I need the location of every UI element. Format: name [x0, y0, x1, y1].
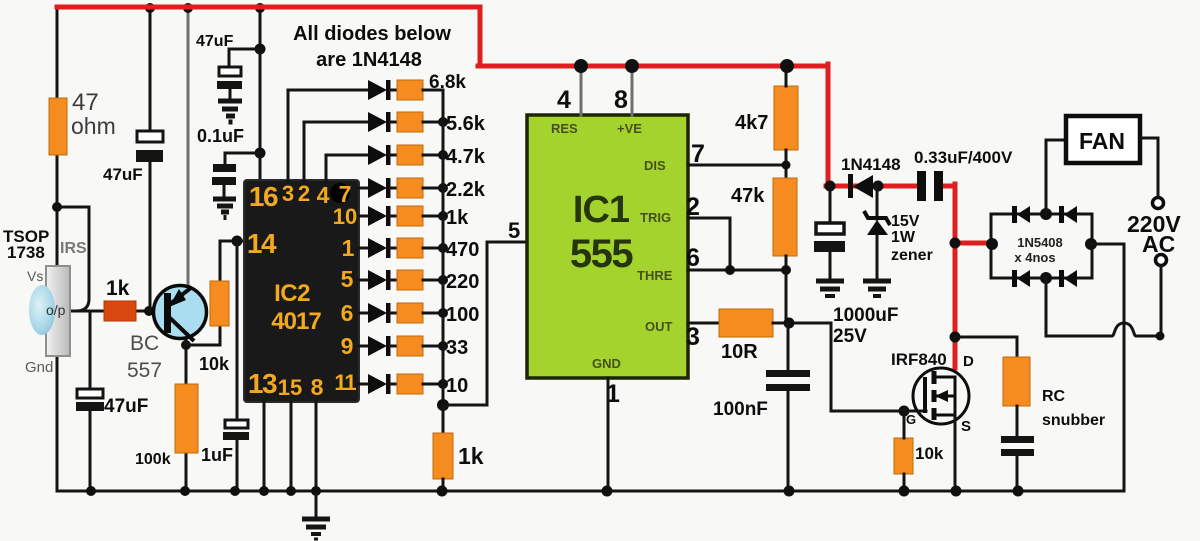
wire: red drop to supply row: [826, 64, 831, 186]
wire: resistor 10 to bus: [423, 383, 443, 386]
node: bus junction row 5.6k: [438, 117, 448, 127]
svg-text:555: 555: [570, 232, 633, 276]
diode D4 1N4148: [368, 178, 391, 198]
node: bus junction row 10: [438, 379, 448, 389]
resistor 100: [397, 303, 423, 323]
diode D6 1N4148: [368, 238, 391, 258]
wire: 4k7 bottom to 47k top: [785, 150, 788, 178]
svg-text:1N4148: 1N4148: [841, 155, 901, 174]
wire: red drop to MOSFET drain: [953, 184, 958, 368]
wire: red bus drop: [478, 7, 483, 66]
wire: diode to resistor row 220: [390, 279, 397, 282]
svg-text:4: 4: [317, 182, 330, 208]
wire: diode to resistor row 33: [390, 345, 397, 348]
wire: bridge top to FAN: [1046, 140, 1066, 214]
node: red bus junction at x188: [183, 3, 193, 13]
wire: +V red bus top: [57, 5, 480, 10]
node: 47uF cap ground junction: [86, 486, 96, 496]
wire: 47k bottom to THRE node and 100nF: [785, 256, 788, 324]
diode D1 1N4148: [368, 80, 391, 100]
diode D7 1N4148: [368, 270, 391, 290]
wire: bus node to 555 pin 5: [443, 242, 528, 405]
svg-text:RES: RES: [551, 121, 578, 136]
transistor Q1 BC557: [154, 286, 207, 342]
svg-text:snubber: snubber: [1042, 412, 1105, 429]
node: hop wire end: [1156, 332, 1165, 341]
resistor RC snubber R: [1003, 357, 1030, 406]
node: 100nF ground junction: [784, 486, 795, 497]
node: bus junction row 470: [438, 243, 448, 253]
wire: IC2 pin5 stub to row 220: [359, 279, 368, 282]
resistor 1k (integrator): [433, 433, 453, 479]
wire: IC2 pin7 stub to row 2.2k: [359, 187, 368, 190]
svg-text:100: 100: [446, 304, 479, 326]
resistor 220: [397, 270, 423, 290]
node: junction of IRS loop on left vertical: [52, 202, 62, 212]
wire: branch to 0.1uF cap: [225, 153, 260, 164]
svg-text:47uF: 47uF: [196, 33, 234, 50]
wire: FAN to mains upper terminal: [1140, 138, 1158, 197]
wire: branch to 47uF decoupling cap: [229, 49, 260, 67]
wire: left supply vertical (top of 47 ohm): [56, 7, 59, 98]
wire: red supply row to 1N4148: [826, 184, 918, 189]
wire: gate 10k leads: [903, 411, 906, 491]
svg-text:IC1: IC1: [573, 189, 630, 231]
svg-text:10R: 10R: [721, 341, 758, 363]
node: bridge right: [1085, 238, 1097, 250]
svg-text:15: 15: [278, 375, 302, 400]
node: pin1 ground junction: [602, 486, 613, 497]
node: gate/10k junction: [899, 406, 910, 417]
bridge diode top-left 1N5408: [1012, 206, 1030, 223]
node: BC557 base junction: [144, 306, 154, 316]
wire: THRE pin 6 to 47k bottom: [688, 269, 786, 272]
bridge rectifier outline: [991, 214, 1092, 278]
resistor 100k: [175, 384, 198, 453]
wire: resistor 470 to bus: [423, 247, 443, 250]
wire: 1k resistor to BC557 base: [136, 310, 158, 313]
svg-text:5.6k: 5.6k: [446, 113, 486, 135]
svg-text:25V: 25V: [833, 326, 867, 347]
wire: resistor 1k to bus: [423, 215, 443, 218]
wire: OUT pin 3 to 10R: [688, 322, 719, 325]
node: pin15 ground junction: [286, 486, 296, 496]
node: collector junction: [181, 340, 191, 350]
bridge diode bottom-right 1N5408: [1059, 270, 1077, 287]
wire: IC2 pin 13 to ground bus: [263, 402, 266, 491]
ground symbol below bus at pin 8: [302, 491, 330, 539]
node: bus junction row 33: [438, 341, 448, 351]
svg-text:AC: AC: [1142, 231, 1175, 257]
wire: 4k7 top to red bus: [785, 66, 788, 86]
wire: diode to resistor row 5.6k: [390, 121, 397, 124]
wire: diode to resistor row 2.2k: [390, 187, 397, 190]
node: pin13 ground junction: [259, 486, 269, 496]
ground symbol under 1000uF: [816, 281, 844, 296]
wire: IC2 pin11 stub to row 10: [359, 383, 368, 386]
wire: IC2 pin 3 to 6.8k row: [288, 90, 368, 182]
wire: zener lead: [876, 186, 879, 219]
wire: red supply row cap to corner: [943, 184, 955, 189]
resistor 470: [397, 238, 423, 258]
wire: 100nF lead: [787, 324, 790, 370]
svg-text:S: S: [961, 418, 971, 435]
node: red bus junction at x260: [255, 3, 265, 13]
svg-text:6: 6: [686, 244, 700, 272]
wire: drain to RC snubber: [955, 337, 1017, 357]
wire: bridge right node to ground bus (crosses under hop): [1091, 244, 1124, 491]
wire: 555 pin 8 to red bus: [631, 66, 634, 115]
capacitor 100nF: [766, 370, 810, 391]
node: pin8 red bus junction: [625, 59, 639, 73]
svg-text:1k: 1k: [446, 207, 469, 229]
svg-text:GND: GND: [592, 356, 621, 371]
svg-text:33: 33: [446, 337, 468, 359]
svg-text:8: 8: [614, 86, 628, 114]
capacitor 1uF: [223, 420, 249, 440]
wire: TRIG pin 2 jog down: [688, 218, 730, 270]
wire: IRS loop from supply node to TSOP output: [57, 207, 89, 311]
svg-text:TRIG: TRIG: [640, 210, 671, 225]
svg-text:Vs: Vs: [27, 268, 43, 284]
node: bus junction row 4.7k: [438, 150, 448, 160]
svg-text:4: 4: [557, 86, 571, 114]
wire: 1000uF lead from red row: [829, 186, 832, 223]
resistor 47k: [773, 178, 797, 256]
svg-text:ohm: ohm: [71, 113, 116, 139]
svg-text:100k: 100k: [135, 451, 171, 468]
svg-text:470: 470: [446, 239, 479, 261]
node: 10R/100nF junction: [784, 318, 795, 329]
node: pin4 red bus junction: [574, 59, 588, 73]
wire: 1uF to ground bus: [236, 439, 239, 491]
wire: summing bus vertical: [442, 90, 445, 405]
resistor 1k (base): [104, 301, 136, 321]
node: bridge top: [1040, 208, 1052, 220]
node: bus junction row 2.2k: [438, 183, 448, 193]
diode D10 1N4148: [368, 374, 391, 394]
wire: collector to 10k bottom jog: [186, 326, 220, 345]
node: MOSFET drain junction: [950, 332, 961, 343]
svg-text:47uF: 47uF: [104, 396, 148, 417]
node: 1uF ground junction: [230, 486, 240, 496]
resistor 10: [397, 374, 423, 394]
bridge diode bottom-left 1N5408: [1012, 270, 1030, 287]
wire: MOSFET source to ground bus: [954, 415, 957, 491]
svg-text:1W: 1W: [891, 229, 916, 246]
svg-text:47k: 47k: [731, 185, 765, 207]
svg-text:47: 47: [72, 89, 99, 116]
svg-text:220: 220: [446, 271, 479, 293]
wire: IC2 pin6 stub to row 100: [359, 312, 368, 315]
resistor 6.8k: [397, 80, 423, 100]
svg-text:IC2: IC2: [274, 280, 310, 307]
wire: IC2 pin9 stub to row 33: [359, 345, 368, 348]
svg-text:1738: 1738: [7, 243, 45, 262]
wire: red stub to bridge left node: [955, 241, 990, 246]
wire: red mid bus: [478, 64, 828, 69]
resistor 4.7k: [397, 145, 423, 165]
IC U2: CD4017 body: [244, 180, 359, 402]
wire: 47uF base capacitor down to base node: [149, 161, 152, 311]
svg-text:RC: RC: [1042, 388, 1066, 405]
wire: IC2 pin 4 to 4.7k row: [326, 155, 368, 182]
node: pin 14 junction: [232, 236, 243, 247]
svg-text:4017: 4017: [271, 308, 321, 335]
svg-text:5: 5: [508, 218, 520, 243]
terminal: mains lower: [1156, 255, 1167, 266]
capacitor 47uF (TSOP filter, polarized): [76, 389, 104, 411]
node: red bus junction at x150: [145, 3, 155, 13]
node: bus bottom junction: [437, 399, 449, 411]
svg-text:1000uF: 1000uF: [833, 305, 898, 326]
wire: 47uF cap to ground bus: [89, 410, 92, 491]
wire: 100nF to ground bus: [787, 391, 790, 491]
svg-text:10k: 10k: [199, 354, 230, 374]
wire: DIS pin 7 to 4k7/47k junction: [688, 164, 786, 167]
svg-text:5: 5: [341, 266, 354, 292]
wire: mains lower terminal down: [1160, 266, 1163, 336]
wire: red bus to 47uF base capacitor: [149, 7, 152, 131]
resistor 10k (gate): [894, 438, 913, 474]
svg-text:IRS: IRS: [60, 240, 87, 257]
wire: IC2 pin 15 to ground bus: [290, 402, 293, 491]
node: gate 10k ground junction: [899, 486, 910, 497]
svg-text:15V: 15V: [891, 213, 920, 230]
wire: diode to resistor row 6.8k: [390, 89, 397, 92]
wire: IC2 pin16 vertical to red bus: [259, 7, 262, 182]
node: red row left junction: [825, 181, 836, 192]
node: 100k ground junction: [180, 486, 190, 496]
diode D8 1N4148: [368, 303, 391, 323]
svg-text:1N5408: 1N5408: [1017, 235, 1063, 250]
svg-text:2: 2: [298, 181, 310, 206]
wire: 10k top to IC2 pin 14: [220, 241, 247, 281]
ground symbol under 47uF decoupling cap: [218, 101, 242, 122]
svg-text:1k: 1k: [106, 277, 130, 300]
zener diode 15V 1W: [864, 211, 890, 281]
svg-text:10: 10: [446, 375, 468, 397]
IC U1: 555 timer body: [527, 115, 688, 378]
svg-text:0.33uF/400V: 0.33uF/400V: [914, 148, 1013, 167]
svg-text:FAN: FAN: [1079, 128, 1125, 154]
svg-text:1k: 1k: [458, 443, 484, 469]
svg-text:DIS: DIS: [644, 158, 666, 173]
wire: bridge bottom to mains with crossover hop: [1046, 278, 1161, 336]
svg-text:3: 3: [282, 181, 294, 206]
ground symbol under zener: [863, 281, 891, 296]
wire: IC2 pin10 stub to row 1k: [359, 215, 368, 218]
wire: bus bottom to 1k: [442, 405, 445, 433]
wire: IC2 pin 2 to 5.6k row: [304, 122, 368, 182]
wire: 555 pin 4 to red bus: [580, 66, 583, 115]
wire: left vertical below 47 ohm down to ground bus: [56, 153, 59, 491]
node: bridge branch junction on red drop: [950, 238, 961, 249]
node: bus junction row 1k: [438, 211, 448, 221]
svg-text:are 1N4148: are 1N4148: [316, 49, 422, 71]
resistor 33: [397, 336, 423, 356]
node: 47uF branch junction on pin16 wire: [255, 44, 266, 55]
wire: resistor 5.6k to bus: [423, 121, 443, 124]
load: FAN box: [1066, 116, 1140, 163]
wire: bottom ground bus: [57, 490, 1124, 493]
node: bridge bottom: [1040, 272, 1052, 284]
TSOP1738 lens: [29, 285, 55, 335]
svg-text:6.8k: 6.8k: [429, 72, 466, 93]
wire: BC557 collector down to 100k: [185, 337, 188, 384]
capacitor 47uF (supply decoupling, polarized): [217, 67, 242, 99]
node: 1k ground junction: [437, 486, 448, 497]
resistor 4k7: [774, 86, 798, 150]
wire: BC557 emitter to red bus: [187, 7, 190, 287]
wire: TSOP o/p to 1k resistor: [70, 310, 104, 313]
wire: 555 pin 1 GND to ground bus: [607, 378, 610, 491]
wire: diode to resistor row 4.7k: [390, 154, 397, 157]
node: snubber ground junction: [1013, 486, 1024, 497]
wire: snubber R to C: [1016, 406, 1019, 436]
svg-text:1: 1: [342, 235, 355, 261]
capacitor 47uF (base coupling, polarized): [136, 131, 163, 162]
diode D2 1N4148: [368, 112, 391, 132]
node: 4k7 red bus junction: [780, 59, 794, 73]
capacitor 0.1uF: [212, 164, 236, 197]
svg-text:G: G: [906, 412, 916, 427]
svg-text:o/p: o/p: [46, 302, 66, 318]
resistor 1k: [397, 206, 423, 226]
wire: resistor 33 to bus: [423, 345, 443, 348]
svg-text:8: 8: [311, 374, 324, 400]
wire: 1k to ground bus: [442, 479, 445, 491]
node: 0.1uF branch junction on pin16 wire: [255, 148, 266, 159]
wire: resistor 2.2k to bus: [423, 187, 443, 190]
svg-text:+VE: +VE: [617, 121, 642, 136]
wire: resistor 6.8k to bus: [423, 89, 443, 92]
wire: gate route down and right to MOSFET gate: [831, 323, 926, 411]
svg-text:THRE: THRE: [637, 268, 673, 283]
svg-text:10: 10: [333, 204, 357, 229]
svg-text:10k: 10k: [915, 444, 944, 463]
wire: resistor 100 to bus: [423, 312, 443, 315]
wire: IC2 pin 8 to ground bus: [315, 402, 318, 491]
svg-text:47uF: 47uF: [103, 165, 143, 184]
node: 4k7/47k junction: [782, 161, 791, 170]
svg-text:1uF: 1uF: [201, 445, 233, 465]
wire: diode to resistor row 1k: [390, 215, 397, 218]
diode 1N4148 (supply): [848, 174, 873, 198]
resistor 2.2k: [397, 178, 423, 198]
wire: diode to resistor row 470: [390, 247, 397, 250]
capacitor 0.33uF/400V: [917, 171, 943, 201]
wire: snubber C to ground bus: [1016, 456, 1019, 491]
wire: pin14 node down to 1uF: [236, 241, 239, 420]
wire: branch from o/p line down to 47uF coupling cap: [89, 311, 92, 389]
svg-text:x 4nos: x 4nos: [1014, 250, 1055, 265]
node: source ground junction: [951, 486, 962, 497]
svg-text:9: 9: [341, 333, 354, 359]
resistor 47 ohm: [49, 98, 67, 155]
svg-text:4.7k: 4.7k: [446, 146, 486, 168]
resistor 10k (emitter-base): [210, 281, 229, 326]
wire: diode to resistor row 100: [390, 312, 397, 315]
node: TRIG/THRE junction: [725, 265, 735, 275]
svg-text:13: 13: [248, 368, 277, 399]
svg-text:557: 557: [127, 359, 162, 382]
terminal: mains upper: [1153, 198, 1164, 209]
svg-text:2.2k: 2.2k: [446, 179, 486, 201]
ground symbol under 0.1uF: [213, 199, 236, 218]
svg-text:100nF: 100nF: [713, 399, 768, 420]
transistor Q2 IRF840 MOSFET: [913, 368, 969, 424]
capacitor RC snubber C: [1001, 436, 1034, 456]
node: bus junction row 220: [438, 275, 448, 285]
wire: 100k to ground bus: [185, 453, 188, 491]
bridge diode top-right 1N5408: [1059, 206, 1077, 223]
svg-text:16: 16: [249, 181, 278, 212]
diode D9 1N4148: [368, 336, 391, 356]
svg-text:11: 11: [334, 370, 356, 395]
resistor 5.6k: [397, 112, 423, 132]
svg-text:OUT: OUT: [645, 319, 673, 334]
svg-text:D: D: [963, 353, 974, 370]
wire: diode to resistor row 10: [390, 383, 397, 386]
resistor 10R: [719, 309, 773, 337]
wire: resistor 220 to bus: [423, 279, 443, 282]
node: pin8 ground junction: [311, 486, 321, 496]
svg-text:All diodes below: All diodes below: [293, 23, 451, 45]
svg-text:0.1uF: 0.1uF: [197, 126, 244, 146]
capacitor 1000uF 25V (polarized): [814, 223, 845, 280]
wire: IC2 pin1 stub to row 470: [359, 247, 368, 250]
svg-text:4k7: 4k7: [735, 112, 768, 134]
svg-text:IRF840: IRF840: [891, 350, 947, 369]
svg-text:14: 14: [247, 228, 277, 259]
node: zener junction on red row: [873, 181, 884, 192]
wire: resistor 4.7k to bus: [423, 154, 443, 157]
wire: 10R to gate node: [773, 322, 831, 325]
node: bridge left: [986, 238, 998, 250]
svg-text:6: 6: [341, 300, 354, 326]
svg-text:Gnd: Gnd: [25, 359, 53, 376]
svg-text:BC: BC: [130, 332, 159, 355]
pin label 7 (on dark pad): [330, 183, 350, 203]
node: bus junction row 100: [438, 308, 448, 318]
diode D5 1N4148: [368, 206, 391, 226]
node: THRE/47k junction: [781, 265, 791, 275]
svg-text:zener: zener: [891, 247, 933, 264]
diode D3 1N4148: [368, 145, 391, 165]
svg-text:3: 3: [686, 323, 700, 351]
